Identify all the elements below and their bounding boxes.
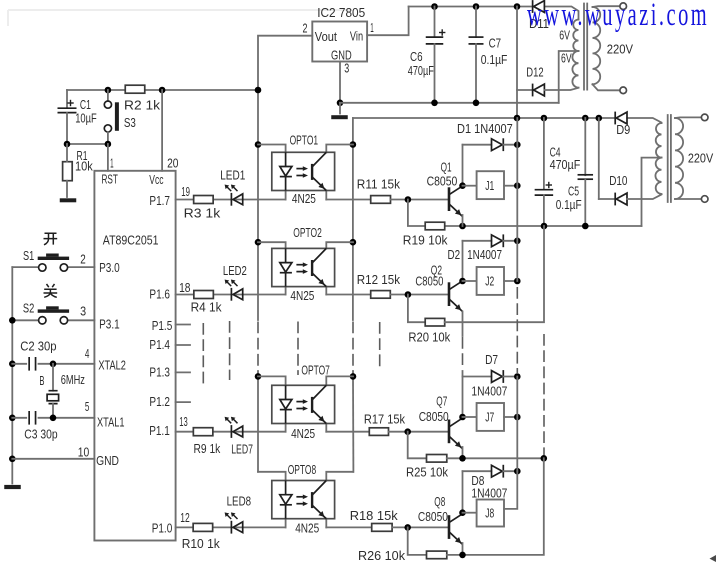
svg-text:R26 10k: R26 10k: [358, 548, 405, 563]
diode D10: [599, 118, 662, 205]
svg-text:XTAL2: XTAL2: [98, 358, 126, 373]
svg-text:1N4007: 1N4007: [471, 384, 507, 399]
resistor R25: [406, 432, 547, 480]
svg-text:J7: J7: [485, 410, 494, 425]
transformer T2 primary 220V winding: [675, 114, 713, 202]
wire Vcc top rail y=90: [67, 87, 258, 94]
switch S2: [12, 301, 94, 324]
svg-text:B: B: [39, 373, 44, 388]
label kai (open) for S1: [44, 233, 58, 245]
wire top +V rail y=6.5: [409, 3, 579, 19]
svg-text:P1.4: P1.4: [149, 337, 170, 352]
wire Q2 emitter down + dashed continuation: [462, 312, 464, 370]
wire omitted-channel dashed columns: [203, 321, 379, 386]
transformer T1 core: [584, 4, 587, 90]
svg-text:0.1µF: 0.1µF: [481, 52, 508, 67]
svg-text:Q8: Q8: [434, 494, 445, 509]
svg-text:D7: D7: [485, 352, 498, 367]
cursor artifact bottom-right: [710, 555, 716, 562]
svg-text:P3.1: P3.1: [99, 317, 120, 332]
diode D9: [615, 112, 630, 137]
diode D7: [463, 352, 521, 399]
LED LED2: [223, 263, 247, 301]
svg-text:XTAL1: XTAL1: [97, 415, 125, 430]
optocoupler OPTO1 4N25: [258, 133, 353, 206]
svg-text:1N4007: 1N4007: [471, 485, 507, 500]
wire Q8 collector riser: [459, 471, 466, 555]
svg-text:P1.3: P1.3: [149, 365, 170, 380]
resistor R10: [176, 510, 286, 551]
svg-text:AT89C2051: AT89C2051: [103, 233, 159, 248]
svg-text:6V: 6V: [561, 51, 572, 66]
wire left ground rail: [9, 267, 16, 483]
svg-text:P1.1: P1.1: [149, 423, 170, 438]
wire Q7 collector riser: [459, 371, 466, 458]
wire opto collector rail dashed section: [352, 322, 354, 375]
diode D2: [448, 234, 521, 261]
resistor R2: [124, 85, 161, 112]
svg-text:4N25: 4N25: [292, 191, 316, 206]
svg-text:C8050: C8050: [415, 274, 443, 289]
svg-text:R11 15k: R11 15k: [357, 177, 401, 192]
switch S3: [104, 90, 136, 144]
resistor R20: [408, 226, 544, 345]
svg-text:C8050: C8050: [419, 409, 449, 424]
capacitor C1: [58, 90, 97, 144]
svg-text:C7: C7: [489, 36, 502, 51]
svg-text:S3: S3: [124, 115, 136, 130]
wire +12V rail y=118: [353, 115, 662, 123]
wire GND pin 10: [12, 445, 94, 460]
svg-text:J8: J8: [485, 506, 494, 521]
svg-text:R10 1k: R10 1k: [182, 536, 221, 551]
svg-text:Q1: Q1: [441, 160, 452, 175]
wire opto anode rail dashed section: [257, 322, 259, 375]
svg-text:J2: J2: [485, 274, 494, 289]
svg-text:10µF: 10µF: [75, 111, 97, 126]
svg-text:C8050: C8050: [418, 509, 448, 524]
microcontroller U1 AT89C2051: [94, 171, 175, 541]
optocoupler OPTO8 4N25: [258, 462, 353, 536]
svg-text:18: 18: [179, 280, 190, 295]
svg-text:0.1µF: 0.1µF: [556, 197, 582, 212]
wire ground return dashed x=544: [543, 334, 545, 455]
wire P1.4 stub: [176, 344, 190, 346]
wire rectifier left vertical x=517: [516, 7, 518, 119]
svg-text:LED8: LED8: [227, 494, 252, 509]
svg-text:10: 10: [78, 445, 90, 460]
diode D11: [529, 0, 549, 31]
svg-text:Q7: Q7: [436, 394, 447, 409]
svg-text:IC2 7805: IC2 7805: [317, 5, 365, 20]
transformer T2 secondary winding: [655, 123, 661, 194]
svg-text:5: 5: [85, 399, 90, 414]
svg-text:P1.7: P1.7: [149, 193, 170, 208]
svg-text:S1: S1: [23, 248, 34, 263]
svg-text:D9: D9: [616, 122, 630, 137]
wire opto anode rail lower x=258: [255, 373, 262, 472]
wire IC2 pin3 GND: [337, 61, 350, 107]
wire P1.3 stub: [176, 371, 190, 373]
svg-text:www.wuyazi.com: www.wuyazi.com: [527, 0, 709, 32]
svg-text:R3 1k: R3 1k: [184, 206, 221, 221]
svg-text:GND: GND: [96, 453, 119, 468]
svg-text:P1.2: P1.2: [149, 394, 170, 409]
svg-text:10k: 10k: [75, 159, 93, 174]
ground under IC2: [331, 103, 348, 119]
svg-text:S2: S2: [23, 301, 34, 316]
diode D12: [517, 65, 579, 97]
wire relay +12V feed x=517 upper: [516, 118, 518, 281]
svg-text:R17 15k: R17 15k: [364, 412, 406, 427]
svg-text:D1 1N4007: D1 1N4007: [457, 121, 513, 136]
capacitor C2: [12, 339, 94, 371]
switch S1: [12, 248, 94, 271]
optocoupler OPTO7 4N25: [258, 362, 353, 441]
capacitor C6: [408, 7, 446, 103]
svg-text:C6: C6: [410, 49, 423, 64]
svg-text:4N25: 4N25: [295, 521, 319, 536]
svg-text:1: 1: [370, 20, 374, 35]
wire IC2 pin2 Vout to Vcc rail: [258, 21, 312, 91]
LED LED1: [220, 168, 245, 206]
svg-text:C8050: C8050: [427, 174, 458, 189]
svg-text:P1.6: P1.6: [149, 287, 170, 302]
svg-text:P1.0: P1.0: [152, 521, 173, 536]
svg-text:19: 19: [181, 184, 190, 199]
ground under R1: [60, 198, 77, 202]
resistor R17: [326, 412, 449, 436]
wire relay +12V feed x=517 lower: [516, 377, 518, 472]
LED LED8: [225, 494, 252, 534]
label guan (close) for S2: [44, 284, 58, 297]
wire opto anode rail x=258: [255, 87, 262, 320]
wire IC2 pin1 Vin to top rail: [367, 7, 409, 36]
svg-text:220V: 220V: [607, 42, 634, 57]
svg-text:J1: J1: [485, 178, 494, 193]
watermark www.wuyazi.com: [527, 0, 709, 32]
wire T1 center tap to GND rail: [559, 51, 579, 103]
svg-text:2: 2: [303, 21, 308, 36]
optocoupler OPTO2 4N25: [258, 225, 353, 303]
svg-text:P1.5: P1.5: [152, 318, 173, 333]
capacitor C4: [535, 118, 581, 226]
wire RST pin vertical: [108, 144, 114, 171]
svg-text:D12: D12: [526, 65, 543, 80]
LED LED7: [225, 417, 253, 457]
svg-text:LED1: LED1: [220, 168, 245, 183]
wire Q1 collector riser: [459, 145, 466, 226]
wire ground rail y=226: [445, 223, 642, 230]
svg-text:OPTO8: OPTO8: [288, 462, 317, 477]
svg-text:P3.0: P3.0: [99, 260, 120, 275]
svg-text:6MHz: 6MHz: [61, 372, 85, 387]
svg-text:R19 10k: R19 10k: [403, 232, 448, 247]
svg-text:13: 13: [179, 414, 188, 429]
svg-text:R25 10k: R25 10k: [406, 464, 448, 479]
svg-text:R20 10k: R20 10k: [408, 330, 450, 345]
capacitor C5: [556, 118, 593, 226]
wire RST node y=144: [64, 141, 111, 148]
svg-text:C2 30p: C2 30p: [20, 339, 56, 354]
svg-text:R18 15k: R18 15k: [350, 508, 398, 523]
relay J7: [463, 403, 521, 431]
resistor R3: [176, 184, 286, 221]
wire Vcc pin vertical: [162, 90, 178, 171]
svg-text:C3 30p: C3 30p: [24, 427, 57, 442]
ground left rail: [4, 485, 21, 489]
transformer T1 primary 220V winding: [593, 3, 634, 94]
wire P1.2 stub: [176, 401, 190, 403]
svg-text:Vcc: Vcc: [149, 172, 164, 187]
relay J2: [463, 267, 521, 295]
wire GND rail y=102.8: [340, 100, 559, 107]
transformer T2 core: [668, 115, 671, 202]
svg-text:1N4007: 1N4007: [467, 247, 502, 262]
svg-text:220V: 220V: [688, 151, 714, 166]
transistor Q7: [419, 394, 463, 449]
wire P1.5 stub: [176, 324, 190, 326]
svg-text:3: 3: [80, 304, 86, 319]
svg-text:4N25: 4N25: [290, 288, 314, 303]
relay J1: [463, 171, 521, 199]
resistor R18: [326, 508, 449, 532]
svg-text:470µF: 470µF: [408, 63, 434, 78]
wire opto collector rail lower x=353: [350, 373, 357, 472]
svg-text:3: 3: [344, 61, 349, 76]
svg-text:OPTO1: OPTO1: [290, 133, 319, 148]
resistor R9: [176, 414, 286, 456]
svg-text:20: 20: [167, 156, 178, 171]
svg-text:470µF: 470µF: [550, 157, 581, 172]
svg-text:OPTO7: OPTO7: [301, 362, 330, 377]
resistor R1: [63, 144, 94, 197]
svg-text:D10: D10: [609, 173, 627, 188]
wire T2 center tap to ground rail: [642, 158, 662, 226]
svg-text:1: 1: [110, 156, 114, 171]
svg-text:R12 15k: R12 15k: [357, 272, 401, 287]
svg-text:R9 1k: R9 1k: [194, 441, 221, 456]
transistor Q8: [418, 494, 463, 544]
svg-text:OPTO2: OPTO2: [293, 225, 322, 240]
svg-text:LED7: LED7: [231, 441, 253, 456]
relay J8: [463, 471, 518, 526]
capacitor C3: [12, 399, 94, 442]
regulator IC2 7805: [312, 5, 367, 63]
wire faint artifact top-left: [8, 10, 350, 26]
transistor Q1: [427, 160, 463, 217]
svg-text:Vout: Vout: [315, 29, 338, 44]
wire opto collector rail x=353: [350, 118, 357, 320]
svg-text:12: 12: [180, 510, 190, 525]
svg-text:RST: RST: [102, 172, 118, 187]
svg-text:Vin: Vin: [350, 29, 363, 44]
svg-text:R4 1k: R4 1k: [191, 300, 222, 315]
wire Q2 collector riser: [459, 241, 466, 285]
wire relay +12V feed dashed section: [516, 287, 518, 373]
svg-text:R2 1k: R2 1k: [124, 98, 161, 113]
svg-text:2: 2: [80, 252, 86, 267]
svg-text:D2: D2: [448, 247, 461, 262]
resistor R26: [358, 458, 544, 563]
svg-text:4N25: 4N25: [291, 426, 315, 441]
diode D8: [463, 465, 521, 501]
svg-text:4: 4: [85, 346, 90, 361]
resistor R4: [176, 280, 286, 315]
svg-text:LED2: LED2: [223, 263, 247, 278]
resistor R11: [326, 177, 449, 204]
resistor R19: [403, 200, 448, 248]
capacitor C7: [469, 7, 508, 103]
transistor Q2: [415, 262, 462, 311]
diode D1: [457, 121, 521, 151]
resistor R12: [326, 272, 449, 298]
crystal B 6MHz: [39, 364, 85, 418]
transformer T1 secondary 6V+6V winding: [559, 20, 578, 88]
